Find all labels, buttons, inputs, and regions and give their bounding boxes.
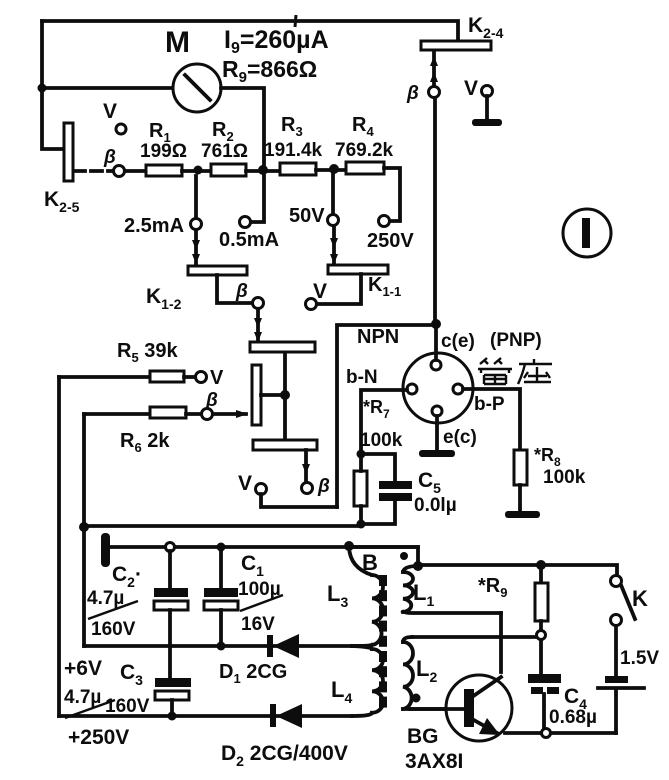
- wire 50V arrow to K1-1: [330, 226, 338, 264]
- svg-text:199Ω: 199Ω: [140, 141, 187, 162]
- wire NPN box: [337, 325, 430, 507]
- transistor Q1 BG: [405, 675, 512, 773]
- label NPN: [357, 326, 399, 348]
- label guanzuo: [478, 358, 552, 384]
- resistor R4: [335, 114, 394, 174]
- capacitor C4: [528, 674, 597, 729]
- resistor R5: [59, 340, 224, 389]
- resistor R8: [514, 445, 586, 511]
- switch K2-4: [421, 14, 504, 50]
- svg-text:R9=866Ω: R9=866Ω: [222, 56, 317, 86]
- node junction rail y526: [79, 522, 89, 532]
- wire R6 arrow to lever: [214, 410, 248, 418]
- battery B1 1.5V: [598, 648, 659, 733]
- node V terminal mid: [306, 299, 317, 310]
- svg-text:4.7µ: 4.7µ: [64, 687, 101, 708]
- node beta terminal bottom: [302, 476, 331, 497]
- label V terminal top right: [464, 77, 478, 100]
- svg-text:β: β: [406, 83, 419, 104]
- wire R9 top rail: [418, 565, 617, 576]
- wire R2-R3: [246, 169, 280, 173]
- switch K2-5: [44, 123, 80, 215]
- wire bottom rail: [505, 731, 616, 735]
- svg-text:769.2k: 769.2k: [335, 140, 394, 161]
- svg-text:M: M: [165, 26, 190, 59]
- label c(e) (PNP): [441, 330, 542, 352]
- diode D2: [221, 704, 348, 769]
- node junction R7 bottom: [357, 520, 366, 529]
- capacitor C5: [363, 469, 457, 524]
- inductor L4: [331, 646, 383, 716]
- resistor R9: [478, 565, 548, 674]
- wire left rail upper: [42, 21, 64, 149]
- svg-text:191.4k: 191.4k: [264, 140, 323, 161]
- node junction C1: [217, 543, 226, 552]
- wire V to ground: [485, 96, 489, 120]
- wire L1 to collector: [499, 613, 503, 672]
- label Rg value: [222, 56, 317, 86]
- wire K to battery: [614, 626, 618, 675]
- svg-text:761Ω: 761Ω: [201, 141, 248, 162]
- node open junction C4 bottom: [542, 729, 551, 738]
- svg-text:100µ: 100µ: [238, 579, 281, 600]
- node terminal 2.5mA: [124, 215, 202, 237]
- ground e(c): [419, 450, 455, 457]
- svg-text:b-N: b-N: [346, 367, 378, 388]
- wire b-N to R7: [361, 390, 407, 452]
- resistor R3: [264, 114, 323, 175]
- svg-text:16V: 16V: [241, 614, 275, 635]
- transformer B top hook: [349, 547, 418, 566]
- wire top rail: [42, 15, 458, 41]
- label V floating: [103, 100, 126, 134]
- svg-text:V: V: [210, 367, 224, 389]
- node beta terminal mid: [253, 298, 264, 309]
- wire socket top pin: [434, 324, 438, 360]
- label beta K1-2: [235, 281, 248, 302]
- wire K1-2 to beta terminal: [217, 275, 251, 303]
- svg-text:4.7µ: 4.7µ: [87, 588, 124, 609]
- diode D1: [219, 634, 299, 686]
- svg-text:b-P: b-P: [474, 394, 505, 415]
- svg-text:β: β: [235, 281, 248, 302]
- svg-text:NPN: NPN: [357, 326, 399, 348]
- svg-text:2.5mA: 2.5mA: [124, 215, 184, 237]
- node polarity dot L1: [400, 552, 408, 560]
- transformer core: [379, 575, 387, 708]
- label +6V: [64, 657, 102, 680]
- svg-text:β: β: [205, 390, 218, 411]
- label +250V: [68, 726, 129, 749]
- svg-text:V: V: [238, 472, 252, 495]
- wire C5 branch top: [361, 454, 395, 482]
- svg-text:250V: 250V: [367, 230, 414, 252]
- wire K1-1 to V terminal: [317, 274, 361, 304]
- node junction left-meter: [38, 84, 47, 93]
- wire beta arrow to upper bar: [254, 309, 262, 342]
- node junction R3R4: [329, 164, 339, 174]
- wire V terminal to NPN rail: [261, 494, 337, 507]
- label b-N: [346, 367, 378, 388]
- wire b-P to R8: [463, 389, 520, 450]
- label V K1-1: [313, 280, 327, 303]
- wire meter left: [42, 86, 173, 90]
- wire to R1: [125, 169, 146, 173]
- wire +250V rail: [59, 714, 352, 718]
- svg-text:R6 2k: R6 2k: [120, 430, 170, 455]
- node junction R7 top: [357, 450, 366, 459]
- svg-text:K: K: [632, 586, 648, 611]
- wire K2-5 dashes to beta terminal: [74, 169, 112, 173]
- wire 2.5mA drop: [194, 176, 198, 218]
- wire e(c) to ground: [435, 416, 439, 450]
- capacitor C2 plate bar: [101, 533, 110, 567]
- switch bar mid upper: [250, 342, 315, 352]
- node junction C3 bottom: [168, 712, 177, 721]
- svg-text:D1 2CG: D1 2CG: [219, 661, 287, 686]
- wire left rail R6 down: [82, 414, 86, 646]
- capacitor C3: [64, 661, 191, 718]
- wire lower bar arrow to beta: [302, 450, 310, 482]
- wire left rail R5 down: [57, 377, 61, 716]
- wire R3-R4: [316, 168, 346, 172]
- symbol circled 1: [563, 209, 611, 257]
- label b-P: [474, 394, 505, 415]
- svg-text:1.5V: 1.5V: [620, 648, 659, 669]
- svg-text:+6V: +6V: [64, 657, 102, 680]
- wire meter right to junction: [221, 88, 264, 169]
- node junction C1 bottom: [217, 642, 226, 651]
- node junction R9 top: [536, 560, 546, 570]
- node terminal 250V: [367, 216, 414, 253]
- node junction L3 top: [344, 541, 354, 551]
- svg-text:e(c): e(c): [443, 427, 477, 448]
- node junction R1R2: [194, 166, 203, 175]
- switch lever mid: [252, 352, 290, 440]
- wire R1-R2: [182, 169, 211, 173]
- svg-text:V: V: [103, 100, 117, 123]
- switch bar mid lower: [253, 440, 317, 450]
- svg-text:3AX8I: 3AX8I: [405, 750, 463, 773]
- node V terminal bottom: [238, 472, 267, 495]
- svg-text:160V: 160V: [91, 619, 136, 640]
- wire 2.5mA arrow to K1-2: [192, 230, 200, 264]
- node terminal 50V: [289, 205, 339, 227]
- node V terminal top right: [482, 86, 493, 97]
- capacitor C2: [87, 551, 188, 678]
- wire +6V rail: [84, 644, 364, 648]
- capacitor C1: [204, 551, 283, 646]
- inductor L3: [327, 547, 383, 646]
- node junction meter drop: [258, 165, 268, 175]
- svg-text:c(e): c(e): [441, 331, 475, 352]
- wire R4 to 250V terminal: [384, 168, 400, 221]
- svg-text:BG: BG: [407, 725, 439, 748]
- svg-text:β: β: [317, 476, 330, 497]
- node junction L1 top: [413, 561, 423, 571]
- svg-text:R5 39k: R5 39k: [117, 340, 178, 365]
- node beta terminal top: [429, 87, 440, 98]
- switch K: [611, 576, 649, 626]
- label beta K2-4: [406, 83, 419, 104]
- svg-text:β: β: [103, 147, 116, 168]
- ground R8: [505, 511, 540, 518]
- label Ig value: [224, 26, 329, 57]
- label beta: [103, 147, 116, 168]
- svg-text:0.0lµ: 0.0lµ: [414, 495, 457, 516]
- svg-text:+250V: +250V: [68, 726, 129, 749]
- wire rail y547: [110, 545, 418, 549]
- ground top right: [472, 119, 502, 126]
- wire K2-4 arrow up from beta: [430, 52, 438, 86]
- switch K1-2: [146, 266, 247, 312]
- wire 0.5mA up: [251, 176, 264, 222]
- label R7: [360, 397, 403, 451]
- switch K1-1: [328, 265, 401, 299]
- socket U1: [403, 353, 473, 423]
- svg-text:160V: 160V: [105, 696, 150, 717]
- node junction c(e): [431, 319, 441, 329]
- label e(c): [443, 427, 477, 448]
- svg-text:I9=260µA: I9=260µA: [224, 26, 329, 57]
- resistor R7: [354, 457, 367, 524]
- node beta terminal: [114, 166, 125, 177]
- wire rail y526: [84, 524, 361, 528]
- svg-text:100k: 100k: [543, 467, 586, 488]
- node terminal 0.5mA: [219, 217, 279, 252]
- svg-text:V: V: [464, 77, 478, 100]
- resistor R6: [84, 390, 218, 455]
- svg-text:0.68µ: 0.68µ: [549, 707, 597, 728]
- node open junction C2: [166, 543, 175, 552]
- inductor L1: [403, 566, 501, 613]
- wire 50V drop: [331, 174, 335, 214]
- label B: [362, 550, 378, 575]
- resistor R2: [201, 119, 248, 176]
- inductor L2: [403, 637, 536, 709]
- svg-text:100k: 100k: [360, 430, 403, 451]
- svg-text:0.5mA: 0.5mA: [219, 229, 279, 251]
- resistor R1: [140, 120, 187, 176]
- svg-text:50V: 50V: [289, 205, 325, 227]
- meter M1: [165, 26, 221, 112]
- svg-text:C2·: C2·: [112, 563, 142, 590]
- wire beta line down to NPN node: [433, 98, 437, 324]
- svg-text:(PNP): (PNP): [490, 330, 542, 351]
